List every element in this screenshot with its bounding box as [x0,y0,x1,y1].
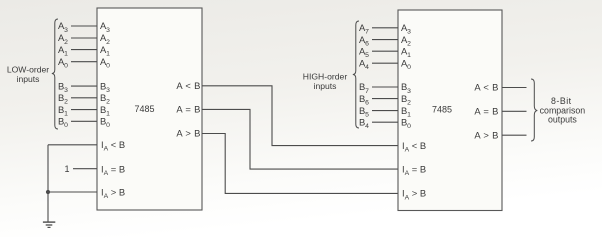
svg-text:1: 1 [64,164,69,174]
wire input B1 (U1) [71,109,97,111]
wire input B5 (U2) [372,110,398,112]
wire input A5 (U2) [372,50,398,52]
wire cascade A=B: U1 output to U2 IA=B [202,109,398,169]
svg-text:A > B: A > B [176,128,200,139]
wire input A4 (U2) [372,62,398,64]
wire A>B output (U2) [502,134,527,136]
wire input A1 (U1) [71,49,97,51]
wire cascade A<B: U1 output to U2 IA<B [202,86,398,146]
junction: IA<B / IA>B tie point [46,190,50,194]
wire cascade input IA<B (U1), tied to ground rail [48,144,97,146]
svg-text:A < B: A < B [176,80,200,91]
wire input B0 (U1) [71,120,97,122]
brace: HIGH-order inputs group [353,21,359,128]
wire A=B output (U2) [502,110,527,112]
svg-text:A > B: A > B [474,129,498,140]
svg-text:7485: 7485 [134,104,154,114]
brace: LOW-order inputs group [52,19,58,129]
wire input B6 (U2) [372,98,398,100]
wire input B3 (U1) [71,85,97,87]
wire input B4 (U2) [372,121,398,123]
svg-text:inputs: inputs [314,81,337,91]
wire logic-1 to IA=B (U1) [73,168,97,170]
wire input A6 (U2) [372,39,398,41]
svg-text:A = B: A = B [176,104,200,115]
wire input A7 (U2) [372,27,398,29]
wire A<B output (U2) [502,87,527,89]
svg-text:7485: 7485 [432,105,452,115]
brace: 8-bit comparison outputs group [531,79,537,141]
wire input A2 (U1) [71,37,97,39]
wire input B2 (U1) [71,97,97,99]
wire input B7 (U2) [372,86,398,88]
comparator U2 7485 (high-order) [398,10,502,211]
wire input A0 (U1) [71,61,97,63]
svg-text:inputs: inputs [17,74,40,84]
wire cascade input IA>B (U1), tied to ground rail [48,191,97,193]
wire cascade A>B: U1 output to U2 IA>B [202,134,398,194]
comparator U1 7485 (low-order) [97,8,202,210]
wire ground rail (vertical) [47,145,49,222]
ground symbol [43,222,55,227]
svg-text:A = B: A = B [474,106,498,117]
svg-text:A < B: A < B [474,82,498,93]
wire input A3 (U1) [71,25,97,27]
svg-text:outputs: outputs [548,115,577,125]
